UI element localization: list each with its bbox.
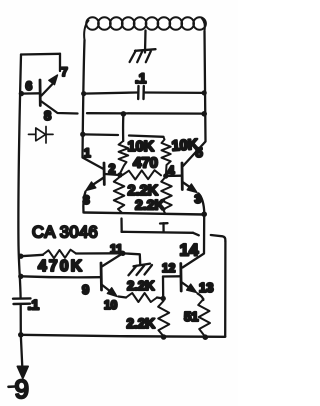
wire: left rail (cap to bottom) bbox=[20, 305, 22, 335]
svg-text:CA 3046: CA 3046 bbox=[32, 224, 98, 242]
wire: emitter rail y214 bbox=[84, 213, 204, 215]
node: cap line / right edge bbox=[202, 90, 207, 95]
wire: coil-box right edge (x~204) bbox=[205, 31, 206, 141]
svg-text:8: 8 bbox=[44, 108, 51, 123]
transistor Q1 pins 1,2,3 (left of diff pair) bbox=[83, 158, 120, 213]
svg-text:9: 9 bbox=[82, 282, 89, 297]
svg-text:6: 6 bbox=[26, 79, 33, 93]
wire: rail y113 (pin8 feed to right edge) bbox=[87, 112, 204, 115]
transistor Q3 pins 9,10,11 (lower left) bbox=[21, 253, 123, 296]
svg-text:.1: .1 bbox=[28, 297, 40, 313]
svg-text:2: 2 bbox=[109, 162, 116, 176]
node: rail / right edge bbox=[201, 111, 207, 117]
diode D1 (marker) bbox=[29, 127, 54, 144]
svg-text:7: 7 bbox=[61, 65, 68, 79]
transistor Q2 pins 3,4,5 (right of diff pair) bbox=[166, 142, 206, 214]
inductor L1 (tapped coil, top) bbox=[84, 17, 206, 40]
node: left edge y134 bbox=[80, 132, 85, 137]
resistor R4 2.2K (left) bbox=[114, 177, 125, 213]
svg-text:470K: 470K bbox=[38, 258, 84, 275]
svg-text:10K: 10K bbox=[128, 139, 155, 155]
wire: pin14 collector riser bbox=[183, 215, 205, 268]
svg-text:9: 9 bbox=[15, 374, 29, 404]
node: pin6 junction bbox=[19, 91, 24, 96]
svg-text:51: 51 bbox=[184, 309, 198, 324]
node: rail / right emitter bbox=[201, 211, 207, 217]
resistor R9 51 bbox=[198, 299, 210, 337]
node: rail / 10K-left top bbox=[121, 111, 127, 117]
svg-text:12: 12 bbox=[162, 261, 176, 275]
node: 2.2K bottom bbox=[161, 334, 167, 340]
node: emitter10 / base12 / 2.2K bbox=[161, 296, 166, 301]
resistor R2 10K (right) bbox=[162, 137, 171, 174]
resistor R5 2.2K (right) bbox=[161, 177, 172, 215]
resistor R7 2.2K (horizontal, emitter 10) bbox=[119, 297, 127, 298]
svg-text:2.2K: 2.2K bbox=[127, 278, 155, 293]
svg-text:470: 470 bbox=[133, 155, 158, 172]
resistor R3 470 bbox=[123, 170, 162, 179]
svg-text:2.2K: 2.2K bbox=[127, 316, 156, 331]
wire: pin11 to chassis ground stub bbox=[123, 253, 140, 263]
wire: left edge to 10K lead (y134) bbox=[84, 133, 119, 136]
node: pin 11 junction bbox=[120, 251, 125, 256]
svg-text:1: 1 bbox=[84, 146, 91, 160]
wire: -9 arrow bbox=[21, 335, 23, 367]
node: left rail / bottom rail bbox=[18, 332, 24, 338]
svg-text:4: 4 bbox=[168, 164, 175, 178]
resistor R1 10K (left) bbox=[119, 141, 129, 173]
ground (below coil tap) bbox=[130, 49, 156, 62]
ground (pin 11) bbox=[129, 264, 153, 276]
transistor Q4 pins 12,13,14 (lower right) bbox=[163, 264, 203, 301]
svg-text:3: 3 bbox=[195, 192, 202, 206]
node: 470K junction bbox=[18, 254, 23, 259]
svg-text:2.2K: 2.2K bbox=[135, 197, 165, 213]
node: 51 bottom bbox=[203, 334, 209, 340]
resistor R6 470K bbox=[21, 255, 43, 256]
wire: 10K-left top lead bbox=[122, 115, 125, 142]
svg-text:14: 14 bbox=[180, 241, 199, 260]
svg-text:10: 10 bbox=[104, 298, 118, 312]
svg-text:.1: .1 bbox=[135, 71, 147, 86]
resistor R8 2.2K (vertical, lower) bbox=[158, 301, 169, 337]
wire: bus to right rail bbox=[211, 235, 226, 241]
wire: coil-box left edge (x~83) bbox=[83, 40, 85, 157]
wire: right rail down bbox=[224, 241, 226, 337]
capacitor C2 value .1 (left rail) bbox=[13, 298, 31, 304]
svg-text:5: 5 bbox=[196, 145, 203, 160]
wire: bottom rail bbox=[21, 335, 225, 337]
wire: cap line left bbox=[84, 93, 138, 94]
node: pin9 junction bbox=[18, 274, 23, 279]
wire: lower bus with ticks bbox=[122, 219, 199, 236]
node 2 bbox=[117, 172, 122, 177]
svg-text:3: 3 bbox=[83, 193, 90, 207]
label -9 bbox=[9, 385, 16, 388]
wire: left rail (top to cap) bbox=[18, 55, 21, 298]
wire: cap line right bbox=[145, 91, 204, 94]
wire: coil centre tap down bbox=[144, 31, 147, 53]
svg-text:13: 13 bbox=[199, 280, 213, 295]
transistor Q5 pins 6,7,8 (top left) bbox=[21, 54, 78, 114]
node 4 bbox=[163, 173, 168, 178]
node: cap line / left edge bbox=[81, 91, 86, 96]
